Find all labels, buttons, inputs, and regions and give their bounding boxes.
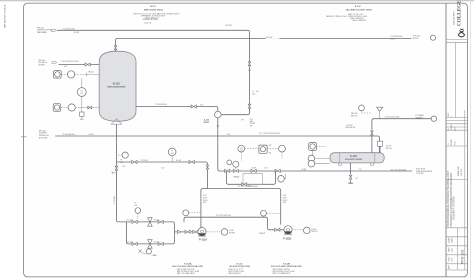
svg-text:SC 1 1/2"-SOLV-104-150#: SC 1 1/2"-SOLV-104-150# xyxy=(259,133,280,135)
svg-text:OPERATING: 25 PSIG @ 350 F: OPERATING: 25 PSIG @ 350 F xyxy=(141,15,165,18)
reducer on discharge xyxy=(178,230,182,233)
recirc valve 2 xyxy=(189,160,194,163)
scan edge top xyxy=(0,0,474,2)
svg-text:1/8": 1/8" xyxy=(250,125,253,127)
svg-text:2"-CR-104-150#: 2"-CR-104-150# xyxy=(63,134,75,136)
svg-text:FE: FE xyxy=(242,119,244,121)
pipe: line A top xyxy=(57,30,250,114)
svg-text:3'-0": 3'-0" xyxy=(256,91,260,93)
solenoid bubble xyxy=(227,160,232,165)
motor circle pump B xyxy=(304,227,311,234)
svg-text:P-102A: P-102A xyxy=(184,263,192,266)
valve on line A vertical xyxy=(248,62,251,66)
svg-text:TANK FARM: TANK FARM xyxy=(37,31,47,34)
instrument PI-105 bubble xyxy=(122,152,128,158)
svg-text:CALCINED SOLVENT DRUM: CALCINED SOLVENT DRUM xyxy=(346,8,373,11)
svg-text:SLOPE: SLOPE xyxy=(250,123,255,125)
pipe: pump A discharge run xyxy=(174,231,198,233)
svg-text:SC-95: SC-95 xyxy=(176,160,181,162)
svg-text:103: 103 xyxy=(171,153,174,155)
svg-text:SOLVENT SYSTEM: SOLVENT SYSTEM xyxy=(452,197,456,220)
svg-text:COLLEGE: COLLEGE xyxy=(457,0,463,26)
svg-text:2"-CR-101-150#: 2"-CR-101-150# xyxy=(63,29,75,31)
pipe: mid solvent line y217 xyxy=(184,217,284,230)
svg-text:SC-98: SC-98 xyxy=(74,32,79,34)
svg-text:ISSUED: ISSUED xyxy=(451,124,453,129)
block valve upstream xyxy=(225,169,230,172)
pump A suction valve xyxy=(132,220,137,223)
instrument LT-102 bubble xyxy=(308,155,315,162)
svg-text:P-102B: P-102B xyxy=(283,264,291,266)
svg-text:DES: 150 PSIG @ 650 F | 10 HP: DES: 150 PSIG @ 650 F | 10 HP xyxy=(177,271,199,273)
control station TIC row xyxy=(238,145,245,152)
svg-text:E-102: E-102 xyxy=(237,264,244,266)
valve on overhead riser xyxy=(114,46,117,50)
svg-text:SC-89: SC-89 xyxy=(252,168,257,170)
svg-text:DESIGN: 75 PSIG @ 650 F / OP: DESIGN: 75 PSIG @ 650 F / OPER: 30 PSIG … xyxy=(326,16,367,18)
check valve B xyxy=(275,228,280,231)
bottom spec block P-102A xyxy=(172,263,203,276)
drum drain xyxy=(350,163,352,174)
svg-text:1 1/2": 1 1/2" xyxy=(283,195,288,197)
svg-text:2"x1 1/2": 2"x1 1/2" xyxy=(126,220,133,222)
valve on vessel outlet xyxy=(191,105,196,108)
svg-text:MOTOR: MOTOR xyxy=(229,232,236,234)
scan edge right xyxy=(470,0,472,278)
svg-text:SC-96: SC-96 xyxy=(390,39,395,41)
drum E-102 xyxy=(330,153,384,163)
svg-text:101: 101 xyxy=(240,150,243,152)
left source label 2 xyxy=(39,60,48,67)
strainer bottom branch xyxy=(148,240,153,249)
svg-text:DES: 150 PSIG @ 650 F | 10 HP: DES: 150 PSIG @ 650 F | 10 HP xyxy=(273,271,295,273)
svg-text:SCALE: SCALE xyxy=(448,236,451,243)
pump B suction labels xyxy=(283,195,288,204)
svg-text:2"x1 1/2": 2"x1 1/2" xyxy=(126,242,133,244)
svg-text:SC 1 1/2"-SOLV-106: SC 1 1/2"-SOLV-106 xyxy=(391,169,406,171)
bottom spec block P-102B xyxy=(271,264,302,276)
instrument circle row 2 xyxy=(68,104,75,111)
B-101 header spec block xyxy=(133,6,179,21)
valve on recirc drop xyxy=(206,165,209,169)
svg-text:2"-CR-102-150#: 2"-CR-102-150# xyxy=(155,104,167,106)
svg-text:10-14: 10-14 xyxy=(454,127,456,131)
svg-text:1 1/2"-FL-105-150#: 1 1/2"-FL-105-150# xyxy=(385,116,400,118)
svg-text:2014: 2014 xyxy=(452,248,454,252)
svg-text:10 HP: 10 HP xyxy=(312,229,316,231)
svg-text:SET 50#: SET 50# xyxy=(386,148,393,150)
drum saddles xyxy=(339,163,342,165)
svg-text:E-102: E-102 xyxy=(355,6,362,8)
valve on suction line xyxy=(115,166,118,170)
svg-text:104: 104 xyxy=(252,94,255,96)
pump B branch valve 1 xyxy=(132,242,137,245)
svg-text:BOTTOMS: BOTTOMS xyxy=(39,137,48,139)
inner circle of square instrument xyxy=(310,144,315,149)
svg-text:CHK: DLB: CHK: DLB xyxy=(461,169,463,176)
svg-text:2"-CR-105: 2"-CR-105 xyxy=(114,196,116,204)
svg-text:DWN: DWN xyxy=(449,257,451,262)
svg-text:101: 101 xyxy=(80,93,83,95)
svg-text:P-102A: P-102A xyxy=(199,239,207,242)
svg-text:4'-0": 4'-0" xyxy=(227,134,231,136)
valve on feed xyxy=(85,63,90,66)
pipe: discharge header xyxy=(201,189,281,228)
svg-text:MOTOR: MOTOR xyxy=(312,231,319,233)
svg-text:SC 1 1/2"-SOLV-109: SC 1 1/2"-SOLV-109 xyxy=(216,215,231,217)
valve on flare riser xyxy=(371,131,374,135)
strainer top branch xyxy=(148,218,153,227)
svg-text:1"-CR-107: 1"-CR-107 xyxy=(140,160,148,162)
instrument PI-106 bubble xyxy=(135,208,141,214)
recirc valve 1 xyxy=(132,160,137,163)
flow arrow on line A vertical xyxy=(248,70,250,73)
block valve downstream xyxy=(275,169,280,172)
svg-text:INSUL: NONE (PP): INSUL: NONE (PP) xyxy=(352,20,366,22)
svg-text:1 1/2": 1 1/2" xyxy=(203,195,208,197)
level bridle xyxy=(81,78,83,112)
pipe: feed line xyxy=(59,64,100,66)
svg-text:HEADER: HEADER xyxy=(415,117,423,120)
pipe: line B vessel overhead xyxy=(116,38,412,51)
block valve mid xyxy=(251,169,256,172)
svg-text:RAW CRUDE DRUM: RAW CRUDE DRUM xyxy=(144,8,163,11)
signal lines xyxy=(241,152,282,161)
valve on level tap xyxy=(88,106,92,109)
svg-text:SC-103: SC-103 xyxy=(413,38,419,40)
svg-text:3'-0": 3'-0" xyxy=(161,167,165,169)
svg-text:SAN JACINTO COLLEGE: SAN JACINTO COLLEGE xyxy=(4,4,7,28)
motor circle pump A xyxy=(221,229,228,236)
pipe: vessel bottom + pump loop xyxy=(117,124,175,244)
check valve A xyxy=(185,230,190,233)
svg-text:NONE: NONE xyxy=(452,237,454,243)
svg-text:11-14: 11-14 xyxy=(454,141,456,145)
svg-text:SC-93: SC-93 xyxy=(154,242,159,244)
svg-text:3'-6": 3'-6" xyxy=(200,104,204,106)
instrument PI-109 bubble xyxy=(261,210,267,216)
svg-text:10 HP: 10 HP xyxy=(229,230,233,232)
pump P-102A xyxy=(198,228,206,236)
svg-text:REVIEW: REVIEW xyxy=(451,139,453,145)
svg-text:SUPPLY: SUPPLY xyxy=(39,64,46,66)
svg-text:1 1/2"x1": 1 1/2"x1" xyxy=(259,233,266,235)
svg-text:P-102B: P-102B xyxy=(283,237,291,240)
svg-text:TW-101: TW-101 xyxy=(88,72,94,74)
left source label 1 xyxy=(37,27,56,33)
svg-text:E-102: E-102 xyxy=(350,155,357,158)
svg-text:SC-90: SC-90 xyxy=(203,200,208,202)
vortex breaker at vessel bottom xyxy=(111,119,122,124)
instrument PI bubble near PSV xyxy=(359,105,365,111)
valve on line A vertical lower xyxy=(248,104,251,108)
gate valve A xyxy=(193,230,198,233)
vessel B-101 xyxy=(99,51,136,121)
svg-text:150#: 150# xyxy=(283,202,287,204)
instrument FI-103 bubble xyxy=(168,148,176,156)
line B mid label xyxy=(266,35,280,38)
svg-text:Crude Oil: Crude Oil xyxy=(144,21,152,24)
svg-text:TO E-103: TO E-103 xyxy=(416,173,423,175)
svg-text:SC-98 4': SC-98 4' xyxy=(226,25,233,27)
control valve actuator xyxy=(233,161,239,167)
border centering tick xyxy=(21,136,27,138)
svg-text:FROM E-101: FROM E-101 xyxy=(346,127,356,129)
svg-text:DES: 75 PSIG @ 650 F: DES: 75 PSIG @ 650 F xyxy=(229,271,245,273)
drum small top nozzle xyxy=(379,146,381,152)
svg-text:105: 105 xyxy=(120,162,123,164)
drum left instruments xyxy=(309,143,317,151)
instrument square row 1 xyxy=(54,71,62,79)
svg-text:RAW CRUDE DRUM: RAW CRUDE DRUM xyxy=(107,86,125,89)
off-page connector flare xyxy=(431,116,436,121)
instrument PI-107 bubble xyxy=(278,176,285,183)
svg-text:SIZE: 2'-0" x 6'-0" T/T: SIZE: 2'-0" x 6'-0" T/T xyxy=(229,269,243,271)
riser spec labels xyxy=(203,195,208,204)
instrument circle row 1 xyxy=(68,71,75,78)
svg-text:2'-6": 2'-6" xyxy=(250,119,254,121)
svg-text:150#: 150# xyxy=(203,202,207,204)
off-page connector line B xyxy=(430,35,435,40)
pipe: junction down to control line xyxy=(218,118,412,171)
instrument LG-102 bubble xyxy=(308,160,315,167)
svg-text:PFD-103: PFD-103 xyxy=(461,250,465,264)
svg-text:1"-FO-102-150# SC-96: 1"-FO-102-150# SC-96 xyxy=(61,61,78,63)
drum top fitting xyxy=(378,141,383,146)
drain gauge bubble xyxy=(146,249,151,254)
junction circle xyxy=(215,111,222,118)
svg-text:SC-97 4": SC-97 4" xyxy=(266,37,273,39)
left source label 3 xyxy=(39,130,49,139)
bypass valve xyxy=(242,183,247,186)
svg-text:MIXER: MIXER xyxy=(204,122,210,124)
svg-text:B-101: B-101 xyxy=(113,81,121,85)
feed line flag xyxy=(52,61,57,63)
pump A branch valve 2 xyxy=(158,220,163,223)
svg-text:SC-88: SC-88 xyxy=(302,169,307,171)
title block logo: SAN JACINTO COLLEGE xyxy=(453,0,465,37)
instrument square row 2 xyxy=(53,104,61,112)
svg-text:B: B xyxy=(448,144,450,145)
title block frame xyxy=(446,3,467,276)
svg-text:FV-101: FV-101 xyxy=(234,176,240,178)
title block rotated titles xyxy=(446,112,465,269)
shared display LY-101 square xyxy=(259,145,267,153)
labels under junction corner xyxy=(242,119,256,128)
pipe: flare line from drum xyxy=(372,119,431,153)
flow arrow xyxy=(217,125,219,128)
svg-text:4'-0": 4'-0" xyxy=(64,66,68,68)
svg-text:B-101: B-101 xyxy=(150,6,157,8)
drum drain valve xyxy=(349,175,352,179)
svg-text:SET 75#: SET 75# xyxy=(351,116,358,118)
svg-text:SC 1 1/2"-SOLV-108-150#: SC 1 1/2"-SOLV-108-150# xyxy=(238,186,258,188)
svg-text:SC-92: SC-92 xyxy=(283,200,288,202)
svg-text:SOLVENT DRUM: SOLVENT DRUM xyxy=(345,159,362,161)
svg-text:SAN JACINTO: SAN JACINTO xyxy=(453,11,456,25)
svg-text:1 1/2": 1 1/2" xyxy=(264,168,269,170)
E-102 header spec block xyxy=(326,6,372,22)
pipe: long crude line y136 to drum xyxy=(55,136,379,153)
pipe: vessel right outlet xyxy=(136,107,218,112)
svg-text:SC-94: SC-94 xyxy=(154,220,159,222)
bottom spec block E-102 xyxy=(229,264,251,276)
instrument LI-102 bubble xyxy=(279,145,286,152)
svg-text:SC-99: SC-99 xyxy=(89,134,94,136)
level gauge circle xyxy=(77,88,86,97)
pump B branch valve 2 xyxy=(158,242,163,245)
pipe: recirc branch y162 xyxy=(117,162,208,189)
svg-text:2'-0": 2'-0" xyxy=(358,169,362,171)
svg-text:DATE: DATE xyxy=(448,247,451,252)
bypass loop xyxy=(227,171,276,184)
svg-text:106: 106 xyxy=(135,205,138,207)
instrument PI-108 bubble xyxy=(183,210,189,216)
